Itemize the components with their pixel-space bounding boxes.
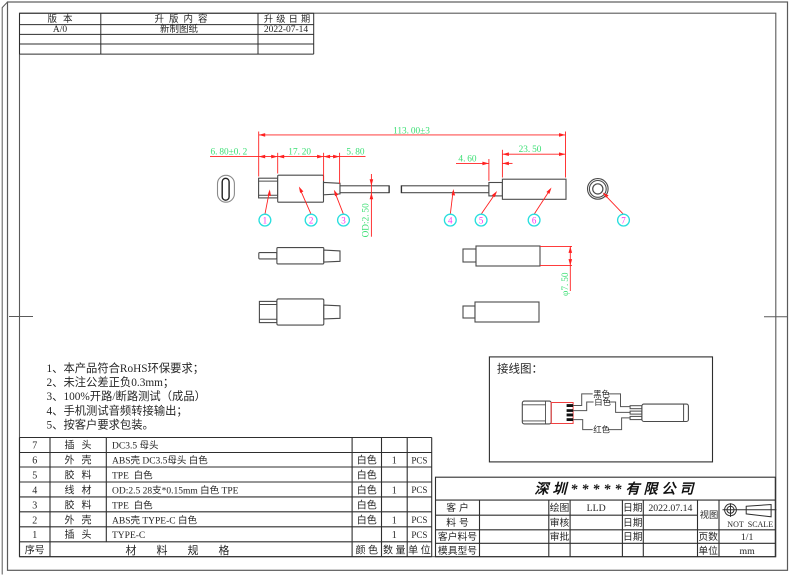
SUB-DRAWING A: dc plug with cable stub (top-left) — [259, 253, 277, 259]
svg-text:1: 1 — [392, 485, 397, 496]
projection symbol — [723, 503, 777, 517]
WIRING DIAGRAM BOX — [489, 357, 712, 462]
part 6 dc plug body — [502, 179, 566, 199]
svg-text:插头: 插头 — [65, 439, 99, 452]
svg-text:颜色: 颜色 — [356, 544, 381, 557]
part 1 usb-c metal shell — [259, 178, 278, 198]
svg-text:胶料: 胶料 — [65, 468, 99, 481]
svg-text:2022-07-14: 2022-07-14 — [264, 25, 309, 35]
dc3.5 end view circles — [588, 179, 609, 200]
svg-text:1: 1 — [263, 215, 268, 225]
svg-text:接线图：: 接线图： — [497, 362, 543, 376]
usb-c end view outer oval — [218, 175, 235, 202]
dc plug pins in wiring diagram — [630, 406, 642, 420]
svg-text:ABS壳 DC3.5母头 白色: ABS壳 DC3.5母头 白色 — [112, 455, 208, 467]
svg-text:白色: 白色 — [594, 397, 611, 407]
svg-text:6: 6 — [32, 456, 37, 467]
svg-text:17. 20: 17. 20 — [288, 147, 311, 157]
wire labels — [593, 389, 611, 435]
svg-text:LLD: LLD — [587, 503, 606, 514]
svg-text:4: 4 — [32, 485, 37, 496]
wire white (pin2 to label) — [573, 402, 594, 411]
svg-text:审核: 审核 — [550, 516, 570, 529]
svg-text:升级日期: 升级日期 — [264, 13, 314, 24]
svg-text:2: 2 — [32, 515, 37, 526]
dim 4.60 — [456, 162, 489, 164]
svg-text:5. 80: 5. 80 — [346, 147, 364, 157]
dc plug body in wiring diagram — [642, 404, 689, 421]
svg-text:3: 3 — [32, 500, 37, 511]
svg-text:单位: 单位 — [408, 544, 433, 557]
svg-text:版本: 版本 — [47, 13, 78, 25]
svg-text:2、未注公差正负0.3mm；: 2、未注公差正负0.3mm； — [47, 375, 175, 389]
svg-text:单位: 单位 — [698, 544, 718, 557]
svg-text:1: 1 — [32, 530, 37, 541]
svg-text:3: 3 — [341, 215, 346, 225]
extension lines — [259, 132, 566, 184]
svg-text:ABS壳 TYPE-C 白色: ABS壳 TYPE-C 白色 — [112, 514, 197, 526]
svg-text:页数: 页数 — [698, 530, 718, 543]
leader balloon 2 — [300, 189, 311, 215]
svg-text:外壳: 外壳 — [65, 513, 99, 526]
svg-text:视图: 视图 — [700, 509, 719, 521]
part 5 dc strain relief — [489, 183, 503, 196]
svg-text:外壳: 外壳 — [65, 454, 99, 467]
wire red (pin4 to label) — [573, 420, 593, 430]
svg-text:白色: 白色 — [357, 483, 377, 496]
cable left segment — [340, 186, 389, 193]
svg-text:5、按客户要求包装。: 5、按客户要求包装。 — [47, 418, 154, 432]
svg-text:5: 5 — [479, 215, 484, 225]
svg-text:序号: 序号 — [25, 544, 45, 557]
svg-text:胶料: 胶料 — [65, 498, 99, 511]
SUB-DRAWING C: usb-c plug (bottom-left) — [259, 301, 277, 322]
svg-text:日期: 日期 — [623, 531, 643, 543]
usb-c shell in wiring diagram — [522, 401, 551, 424]
TITLE BLOCK — [436, 477, 776, 557]
svg-text:OD:2. 50: OD:2. 50 — [362, 203, 372, 237]
svg-text:3、100%开路/断路测试（成品）: 3、100%开路/断路测试（成品） — [47, 389, 206, 403]
svg-text:数量: 数量 — [383, 544, 408, 557]
svg-text:4. 60: 4. 60 — [458, 154, 476, 164]
dim OD:2.50 — [370, 174, 372, 237]
dim φ7.50 — [540, 246, 572, 291]
dim 113.00±3 — [259, 134, 566, 136]
svg-text:料号: 料号 — [446, 516, 472, 529]
svg-text:升版内容: 升版内容 — [154, 13, 212, 25]
fold mark left — [9, 316, 33, 318]
wire white (label to dc pin2) — [609, 402, 630, 412]
svg-text:白色: 白色 — [357, 513, 377, 526]
leader balloon 7 — [604, 194, 623, 214]
svg-text:红色: 红色 — [593, 424, 610, 434]
leader balloon 6 — [534, 189, 550, 214]
svg-text:1: 1 — [392, 530, 397, 541]
arrows 5.80 — [324, 155, 331, 159]
leader balloon 5 — [481, 193, 496, 215]
left trim line — [2, 2, 7, 575]
svg-text:客户料号: 客户料号 — [438, 530, 477, 543]
revision table — [20, 13, 314, 54]
leader balloon 4 — [450, 191, 453, 214]
svg-text:日期: 日期 — [623, 502, 643, 514]
svg-text:1/1: 1/1 — [741, 532, 754, 543]
svg-text:113. 00±3: 113. 00±3 — [393, 126, 430, 136]
balloons 1-7 (cyan circle, magenta number) — [259, 214, 629, 226]
svg-text:审批: 审批 — [550, 530, 570, 543]
wire black (label to dc pin1) — [608, 394, 630, 407]
svg-text:白色: 白色 — [357, 498, 377, 511]
svg-text:DC3.5 母头: DC3.5 母头 — [112, 440, 158, 452]
NOTES — [47, 361, 206, 432]
title block labels — [438, 501, 773, 557]
svg-text:模具型号: 模具型号 — [438, 544, 477, 557]
svg-text:TPE 白色: TPE 白色 — [112, 469, 153, 481]
wire red (label to dc pin3) — [608, 418, 630, 430]
fold mark right — [764, 316, 788, 318]
wire black (pin1 to label) — [573, 394, 593, 406]
BOM TABLE — [20, 438, 432, 557]
svg-text:4、手机测试音频转接输出；: 4、手机测试音频转接输出； — [47, 403, 188, 417]
svg-text:1、本产品符合RoHS环保要求；: 1、本产品符合RoHS环保要求； — [47, 361, 205, 375]
svg-text:新制图纸: 新制图纸 — [160, 23, 199, 35]
svg-text:1: 1 — [392, 515, 397, 526]
4 black pins — [567, 404, 574, 407]
svg-text:插头: 插头 — [65, 528, 99, 541]
svg-text:23. 50: 23. 50 — [519, 145, 542, 155]
svg-text:TPE 白色: TPE 白色 — [112, 499, 153, 511]
dim 23.50 — [502, 153, 565, 155]
arrows 6.80 — [259, 155, 266, 159]
dim row2 line — [210, 156, 366, 158]
svg-text:4: 4 — [448, 215, 453, 225]
leader balloon 1 — [265, 191, 270, 214]
svg-text:2: 2 — [309, 215, 314, 225]
svg-text:NOT SCALE: NOT SCALE — [727, 520, 773, 529]
usb-c end view inner oval — [222, 178, 229, 200]
SUB-DRAWING D: dc body with stub (bottom-right) — [463, 306, 475, 318]
red pcb body in wiring diagram — [551, 403, 573, 424]
svg-text:φ7. 50: φ7. 50 — [561, 272, 571, 296]
svg-text:mm: mm — [739, 546, 755, 557]
svg-text:2022.07.14: 2022.07.14 — [648, 503, 692, 514]
svg-text:1: 1 — [392, 456, 397, 467]
part 3 strain relief — [324, 182, 341, 194]
svg-text:材料规格: 材料规格 — [126, 543, 250, 557]
svg-text:线材: 线材 — [65, 483, 99, 496]
svg-text:绘图: 绘图 — [550, 501, 570, 514]
svg-text:TYPE-C: TYPE-C — [112, 531, 145, 541]
leader balloon 3 — [335, 192, 344, 215]
svg-text:PCS: PCS — [411, 455, 427, 465]
svg-text:日期: 日期 — [623, 517, 643, 529]
svg-text:6. 80±0. 2: 6. 80±0. 2 — [211, 147, 248, 157]
part 2 type-c body — [278, 175, 324, 202]
svg-text:5: 5 — [32, 470, 37, 481]
svg-text:PCS: PCS — [411, 485, 427, 495]
svg-text:7: 7 — [621, 215, 626, 225]
svg-text:A/0: A/0 — [53, 25, 68, 35]
SUB-DRAWING B: dc body with stub (top-right) — [463, 249, 476, 262]
svg-text:OD:2.5 28支*0.15mm 白色 TPE: OD:2.5 28支*0.15mm 白色 TPE — [112, 484, 239, 496]
cable right segment — [401, 186, 489, 193]
BOM text — [25, 439, 433, 557]
svg-text:白色: 白色 — [357, 468, 377, 481]
svg-text:PCS: PCS — [411, 530, 427, 540]
revision table text — [47, 13, 313, 35]
svg-text:客户: 客户 — [446, 501, 472, 514]
svg-text:6: 6 — [532, 215, 537, 225]
svg-text:白色: 白色 — [357, 454, 377, 467]
arrows 17.20 — [278, 155, 285, 159]
svg-text:深圳*****有限公司: 深圳*****有限公司 — [535, 481, 698, 498]
svg-text:PCS: PCS — [411, 515, 427, 525]
svg-text:7: 7 — [32, 441, 37, 452]
